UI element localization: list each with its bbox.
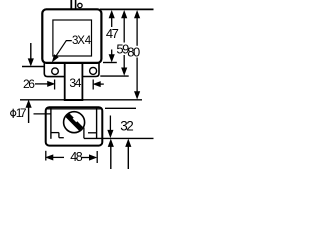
svg-text:7: 7	[20, 106, 27, 120]
svg-text:7: 7	[112, 26, 119, 41]
svg-text:0: 0	[133, 44, 140, 59]
svg-text:8: 8	[76, 150, 83, 164]
svg-text:2: 2	[126, 118, 134, 133]
svg-text:4: 4	[85, 35, 92, 47]
svg-text:6: 6	[28, 77, 35, 91]
svg-text:4: 4	[75, 76, 82, 90]
